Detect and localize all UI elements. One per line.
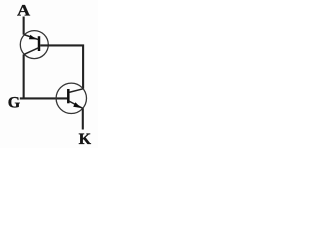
node A (anode terminal label) (17, 2, 31, 20)
wire: anode lead from A down to Q1 emitter (23, 17, 25, 35)
transistor Q2 collector lead (69, 89, 83, 93)
wire: Q2 emitter down to K (82, 108, 84, 129)
transistor Q1 emitter lead (arrow into bar = PNP) (24, 35, 39, 40)
transistor Q1 (PNP) circle (20, 31, 48, 59)
wire: Q1 base to right then down to Q2 collector (40, 45, 83, 88)
transistor Q2 (NPN) circle (56, 83, 86, 113)
transistor Q1 base bar (38, 36, 41, 51)
transistor Q2 base bar (67, 89, 70, 103)
transistor Q1 collector lead (24, 48, 39, 55)
wire: Q1 collector down to gate node (23, 54, 25, 98)
transistor Q2 emitter lead (arrow out = NPN) (69, 101, 83, 108)
Q1 emitter arrowhead (29, 35, 37, 40)
svg-text:K: K (79, 131, 92, 148)
wire: gate lead from G to Q2 base (20, 97, 68, 99)
svg-text:G: G (8, 95, 21, 112)
Q2 emitter arrowhead (73, 102, 81, 108)
